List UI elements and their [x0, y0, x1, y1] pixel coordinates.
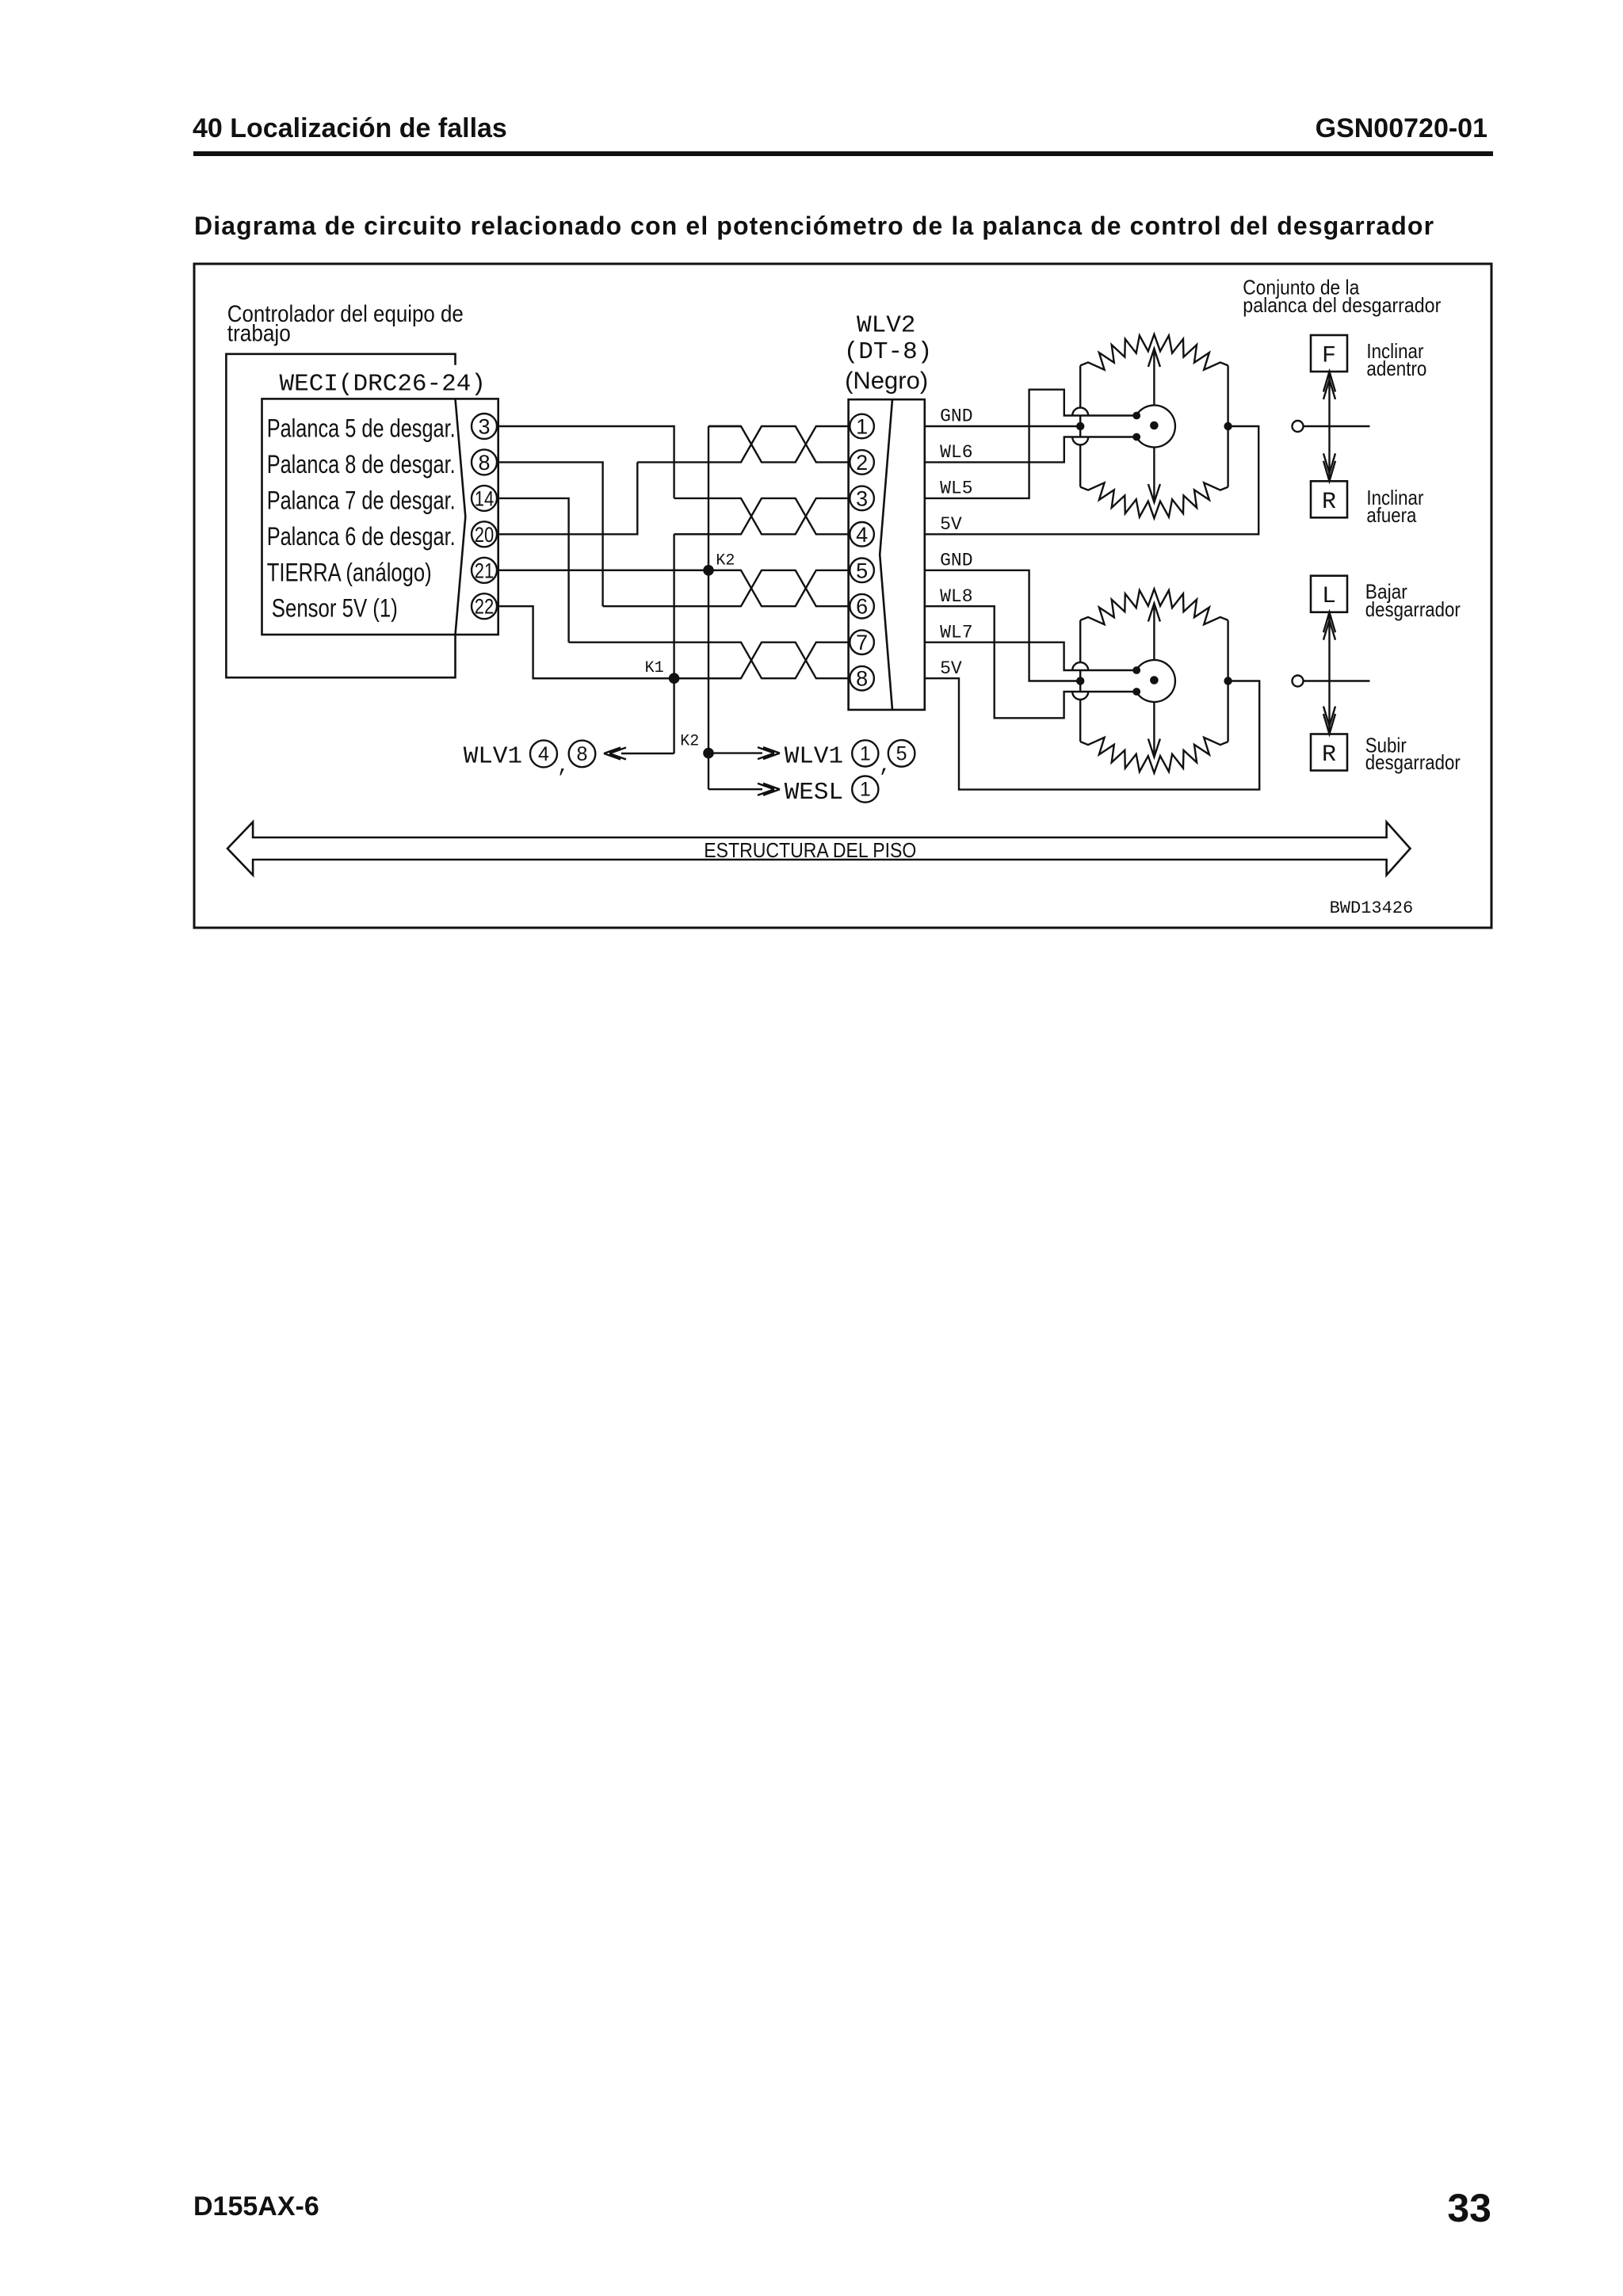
svg-text:5: 5 [896, 743, 907, 765]
potentiometer P2 (lift) ring left edge with hop-overs [1072, 620, 1088, 742]
lever pivot circle (bot) [1293, 676, 1304, 687]
potentiometer P1 (tilt) ring left edge with hop-overs [1072, 366, 1088, 487]
wire GND branch vertical K2 [708, 426, 741, 789]
junction K2 lower dot [703, 748, 714, 759]
footer model [193, 2191, 319, 2222]
footer page number [1447, 2185, 1491, 2231]
svg-text:5V: 5V [940, 658, 962, 679]
lever arrowhead down (top) [1323, 453, 1335, 481]
svg-text:8: 8 [478, 451, 490, 475]
svg-text:WESL: WESL [785, 779, 843, 807]
svg-text:WLV2: WLV2 [857, 311, 915, 339]
svg-text:5: 5 [856, 559, 868, 582]
svg-text:7: 7 [856, 631, 868, 654]
wire WECI pin22 Sensor 5V to WLV2 pin8 [498, 606, 741, 678]
potentiometer P2 (lift) lower contact dot [1132, 688, 1140, 696]
potentiometer P2 (lift) wiper travel arrow [1148, 604, 1160, 757]
potentiometer P2 (lift) upper contact dot [1132, 666, 1140, 674]
twisted pair crossover pins 1-2 [708, 426, 849, 462]
potentiometer P2 (lift) ring right edge [1227, 620, 1228, 742]
wire WLV2 pin7 WL7 to pot2 upper wiper contact [925, 643, 1136, 670]
svg-text:WLV1: WLV1 [785, 742, 843, 770]
svg-text:L: L [1322, 583, 1336, 610]
svg-text:desgarrador: desgarrador [1365, 750, 1461, 774]
wire WLV2 pin5 GND to pot2 ring [925, 570, 1080, 681]
potentiometer P2 (lift) resistive ring top zigzag [1080, 589, 1228, 625]
potentiometer P2 (lift) ring right junction dot [1224, 677, 1232, 685]
wire WLV2 pin3 WL5 to pot1 upper wiper contact [925, 390, 1136, 498]
lever arrowhead up (top) [1323, 372, 1335, 399]
lever arrowhead down (bot) [1323, 707, 1335, 734]
lever arrowhead up (bot) [1323, 612, 1335, 640]
connector WLV2 housing [849, 399, 925, 710]
svg-text:trabajo: trabajo [227, 321, 291, 347]
svg-text:Palanca 8 de desgar.: Palanca 8 de desgar. [267, 450, 456, 479]
WECI pin 8 circle [472, 449, 497, 475]
svg-text:R: R [1322, 742, 1336, 769]
svg-text:Palanca 7 de desgar.: Palanca 7 de desgar. [267, 486, 456, 514]
lever R-box (top lever) [1311, 481, 1347, 517]
wire WLV2 pin4 5V to pot1 ring right [925, 426, 1258, 534]
wire WECI pin3 (Palanca 5) to WLV2 pin3 WL5 [498, 426, 674, 498]
potentiometer P1 (tilt) ring left junction dot [1076, 422, 1084, 430]
potentiometer P1 (tilt) wiper body circle [1136, 406, 1175, 448]
potentiometer P1 (tilt) resistive ring bottom zigzag [1080, 482, 1228, 518]
svg-text:afuera: afuera [1366, 503, 1416, 527]
lever pivot circle (top) [1293, 421, 1304, 432]
svg-text:desgarrador: desgarrador [1365, 597, 1461, 621]
potentiometer P1 (tilt) upper contact dot [1132, 412, 1140, 420]
lever F-box (top lever) [1311, 335, 1347, 372]
svg-text:WL8: WL8 [940, 586, 972, 607]
connector WLV2 mating face slant [880, 399, 892, 710]
wire K2 to WLV1 1,5 arrow [708, 747, 780, 759]
lever pivot line (top) [1304, 425, 1370, 427]
svg-text:2: 2 [856, 451, 868, 475]
svg-text:3: 3 [478, 415, 490, 439]
svg-text:ESTRUCTURA DEL PISO: ESTRUCTURA DEL PISO [704, 838, 916, 862]
svg-text:(DT-8): (DT-8) [844, 338, 933, 366]
junction K2 dot [703, 565, 714, 576]
svg-text:1: 1 [860, 779, 871, 801]
svg-text:21: 21 [475, 559, 495, 582]
potentiometer P1 (tilt) lower contact dot [1132, 433, 1140, 441]
WLV2 pin 2 circle [850, 450, 874, 475]
lever travel arrow shaft (top) [1328, 372, 1330, 481]
twisted pair crossover pins 3-4 [674, 498, 849, 534]
svg-text:4: 4 [538, 743, 549, 765]
potentiometer P1 (tilt) ring right edge [1227, 366, 1228, 487]
WECI pin 22 circle [472, 593, 497, 619]
svg-text:K2: K2 [716, 552, 735, 570]
connector WECI mating face slant [456, 399, 466, 635]
potentiometer P1 (tilt) wiper travel arrow [1148, 349, 1160, 502]
WLV2 pin 4 circle [850, 522, 874, 547]
svg-text:3: 3 [856, 486, 868, 510]
potentiometer P2 (lift) ring left junction dot [1076, 677, 1084, 685]
wire K1 to WLV1 4,8 arrow [604, 748, 674, 760]
svg-text:1: 1 [856, 415, 868, 439]
wire WECI pin20 (Palanca 6) to WLV2 pin2 WL6 [498, 462, 638, 534]
diagram outer frame [194, 264, 1491, 928]
svg-text:WL5: WL5 [940, 479, 972, 499]
WECI pin 14 circle [472, 486, 497, 511]
lever travel arrow shaft (bot) [1328, 612, 1330, 734]
svg-text:Sensor 5V (1): Sensor 5V (1) [272, 594, 398, 623]
page title [194, 212, 1434, 241]
svg-text:4: 4 [856, 523, 868, 547]
svg-text:WL7: WL7 [940, 622, 972, 643]
wire WECI pin14 (Palanca 7) to WLV2 pin7 WL7 [498, 498, 569, 643]
svg-text:,: , [557, 754, 570, 778]
svg-text:GND: GND [940, 551, 972, 571]
potentiometer P1 (tilt) resistive ring top zigzag [1080, 334, 1228, 370]
svg-text:F: F [1322, 343, 1336, 370]
WLV2 pin 6 circle [850, 594, 874, 619]
svg-text:22: 22 [475, 595, 495, 619]
potentiometer P2 (lift) wiper center dot [1150, 676, 1159, 685]
wire K2 to WESL 1 arrow [708, 784, 780, 795]
floor structure double arrow band [227, 822, 1411, 875]
svg-text:6: 6 [856, 595, 868, 619]
svg-text:TIERRA (análogo): TIERRA (análogo) [267, 558, 432, 586]
lever R-box (bot lever) [1311, 734, 1347, 771]
svg-text:palanca del desgarrador: palanca del desgarrador [1243, 293, 1441, 317]
WECI pin 20 circle [472, 521, 497, 547]
WLV2 pin 7 circle [850, 630, 874, 654]
header rule [193, 151, 1493, 157]
svg-text:GND: GND [940, 406, 972, 427]
svg-text:WLV1: WLV1 [464, 742, 522, 770]
potentiometer P2 (lift) wiper body circle [1136, 660, 1175, 702]
svg-text:8: 8 [856, 667, 868, 691]
svg-text:8: 8 [577, 743, 588, 765]
potentiometer P1 (tilt) ring right junction dot [1224, 422, 1232, 430]
svg-text:5V: 5V [940, 514, 962, 535]
svg-text:WL6: WL6 [940, 442, 972, 463]
svg-text:R: R [1322, 489, 1336, 516]
twisted pair crossover pins 5-6 [498, 570, 849, 606]
svg-text:K2: K2 [680, 733, 699, 751]
potentiometer P1 (tilt) wiper center dot [1150, 421, 1159, 430]
junction K1 dot [669, 673, 680, 684]
twisted pair crossover pins 7-8 [569, 643, 849, 679]
svg-text:K1: K1 [645, 659, 664, 677]
page header left [193, 113, 507, 144]
wire 5V branch to WLV2 pin4 [674, 534, 741, 753]
svg-text:20: 20 [475, 523, 495, 547]
wire WECI pin8 (Palanca 8) to WLV2 pin6 WL8 [498, 462, 603, 606]
wire WECI pin21 TIERRA to WLV2 pin5 GND [498, 570, 741, 571]
svg-text:Palanca 5 de desgar.: Palanca 5 de desgar. [267, 414, 456, 443]
svg-text:14: 14 [475, 486, 495, 510]
lever L-box (bot lever) [1311, 576, 1347, 612]
WLV2 pin 5 circle [850, 559, 874, 583]
svg-text:BWD13426: BWD13426 [1330, 898, 1414, 918]
wire WLV2 pin8 5V to pot2 ring right [925, 678, 1259, 789]
svg-text:Palanca 6 de desgar.: Palanca 6 de desgar. [267, 522, 456, 551]
svg-text:adentro: adentro [1366, 357, 1426, 380]
svg-text:1: 1 [860, 743, 871, 765]
WECI pin 21 circle [472, 558, 497, 583]
potentiometer P2 (lift) resistive ring bottom zigzag [1080, 738, 1228, 773]
WECI pin 3 circle [472, 414, 497, 439]
wire WLV2 pin2 WL6 to pot1 lower wiper contact [925, 437, 1136, 463]
WLV2 pin 8 circle [850, 666, 874, 691]
WLV2 pin 1 circle [850, 414, 874, 439]
connector WECI housing [262, 399, 498, 635]
lever pivot line (bot) [1304, 680, 1370, 681]
work equipment controller box outline [226, 354, 455, 677]
page header right [1316, 113, 1487, 144]
svg-text:(Negro): (Negro) [845, 367, 928, 395]
svg-text:WECI(DRC26-24): WECI(DRC26-24) [280, 371, 486, 399]
WLV2 pin 3 circle [850, 486, 874, 511]
wire WLV2 pin6 WL8 to pot2 lower wiper contact [925, 606, 1136, 718]
wire WLV2 pin1 GND to pot1 ring [925, 425, 1080, 427]
